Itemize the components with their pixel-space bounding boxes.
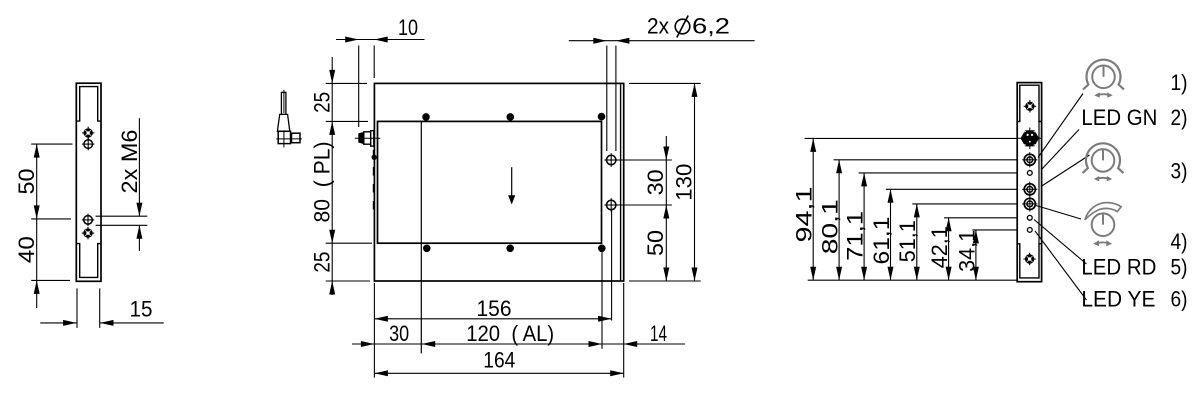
left view screw bottom crosshair <box>82 214 94 226</box>
svg-text:94,1: 94,1 <box>792 187 817 243</box>
svg-text:6): 6) <box>1171 286 1188 311</box>
svg-text:4): 4) <box>1171 229 1188 254</box>
dimension 42,1 <box>927 218 1017 280</box>
right view screw top <box>1024 100 1036 112</box>
index 5) <box>1171 255 1188 280</box>
dimension 25 top left chain <box>309 57 368 121</box>
right view LED yellow <box>1027 228 1032 233</box>
svg-text:80 ( PL): 80 ( PL) <box>309 142 334 223</box>
knob icon 3 <box>1083 143 1124 181</box>
right view pot 3 <box>1022 196 1037 211</box>
dimension 61,1 <box>869 189 1017 280</box>
svg-text:51,1: 51,1 <box>895 220 920 262</box>
svg-text:34,1: 34,1 <box>954 230 979 272</box>
dimension 130 <box>629 83 701 281</box>
leader to LED RD <box>1034 220 1087 265</box>
front view mounting hole upper <box>604 153 618 167</box>
right view LED red <box>1027 215 1032 220</box>
label 2x M6 left view <box>96 118 148 251</box>
right view screw bottom <box>1023 253 1035 265</box>
svg-text:LED YE: LED YE <box>1081 286 1155 311</box>
svg-text:61,1: 61,1 <box>869 217 894 265</box>
front view hidden edge below connector <box>372 150 374 212</box>
left view top channel <box>76 87 101 122</box>
leader to knob 4 <box>1036 206 1081 220</box>
svg-text:25: 25 <box>309 92 334 113</box>
leader to knob 3 <box>1041 155 1090 187</box>
dimension 80 (PL) chain <box>309 121 372 243</box>
dimension 25 bottom left chain <box>309 243 370 295</box>
right view top channel <box>1017 85 1041 121</box>
leader to LED YE <box>1035 231 1087 300</box>
left view screw top filled <box>82 127 94 139</box>
label LED YE <box>1081 286 1155 311</box>
dimension 71,1 <box>843 173 1018 280</box>
dimension 80,1 <box>818 160 1018 280</box>
left view screw top crosshair <box>82 138 94 150</box>
svg-text:2x: 2x <box>647 14 669 39</box>
svg-text:25: 25 <box>309 252 334 273</box>
leader to knob 1 <box>1038 94 1083 158</box>
index 4) <box>1171 229 1188 254</box>
svg-text:2): 2) <box>1171 105 1188 130</box>
svg-text:42,1: 42,1 <box>927 226 952 268</box>
dimension 164 <box>374 348 623 377</box>
active length boundary line <box>420 121 422 353</box>
svg-text:14: 14 <box>650 321 667 346</box>
front view bottom mounting dots <box>423 245 606 253</box>
svg-text:80,1: 80,1 <box>818 199 843 254</box>
svg-text:40: 40 <box>14 236 39 263</box>
index 6) <box>1171 286 1188 311</box>
left view housing outline <box>76 83 101 281</box>
right view bottom channel <box>1017 244 1041 278</box>
dimension 120 (AL) <box>422 251 602 349</box>
index 3) <box>1171 158 1188 183</box>
leader to LED GN <box>1042 130 1079 170</box>
right view LED green <box>1027 171 1032 176</box>
left view screw bottom filled <box>82 227 94 239</box>
svg-text:50: 50 <box>643 230 668 256</box>
dimension 10 <box>336 15 425 127</box>
svg-text:LED RD: LED RD <box>1081 255 1156 280</box>
svg-text:120 ( AL): 120 ( AL) <box>466 321 554 346</box>
dimension 15 left view <box>40 288 163 328</box>
label LED RD <box>1081 255 1156 280</box>
right view connector M8 <box>1018 128 1041 150</box>
index 1) <box>1171 70 1188 95</box>
right view pot 1 <box>1022 152 1037 167</box>
svg-text:164: 164 <box>483 348 515 373</box>
svg-text:6,2: 6,2 <box>692 14 730 39</box>
front view inner profile <box>378 121 602 243</box>
front view left edge dot <box>372 155 377 160</box>
svg-text:130: 130 <box>671 164 696 201</box>
cable plug pictogram <box>276 90 302 147</box>
svg-text:1): 1) <box>1171 70 1188 95</box>
label LED GN <box>1081 105 1157 130</box>
left view bottom channel <box>76 244 101 278</box>
front view outer housing <box>374 83 623 281</box>
dimension 40 left view <box>14 219 70 308</box>
knob icon 4 coarse <box>1085 203 1121 247</box>
front view mounting hole lower <box>604 198 618 212</box>
dimension 30 bottom <box>352 321 685 347</box>
front view side connector <box>355 131 380 146</box>
svg-text:156: 156 <box>477 296 512 321</box>
svg-text:50: 50 <box>14 169 39 195</box>
front view direction arrow <box>508 167 515 204</box>
svg-text:30: 30 <box>643 169 668 195</box>
dimension 50 right <box>643 205 669 281</box>
front view top mounting dots <box>422 113 605 121</box>
svg-text:3): 3) <box>1171 158 1188 183</box>
svg-text:10: 10 <box>398 15 418 40</box>
svg-text:5): 5) <box>1171 255 1188 280</box>
svg-text:LED GN: LED GN <box>1081 105 1157 130</box>
right view pot 2 <box>1022 182 1037 197</box>
dimension 30 right <box>617 136 672 205</box>
dimension 94,1 <box>792 138 1018 280</box>
svg-text:2x M6: 2x M6 <box>117 130 142 194</box>
dimension 50 left view <box>14 144 73 219</box>
dimension 34,1 <box>954 230 1017 280</box>
right view housing outline <box>1017 83 1041 282</box>
svg-text:30: 30 <box>389 321 409 346</box>
right view cover seam <box>1038 122 1040 244</box>
bottom reference line right view <box>808 279 1018 281</box>
knob icon 1 <box>1083 60 1124 98</box>
label 2x dia 6,2 <box>569 14 755 152</box>
dimension 156 <box>374 211 611 378</box>
svg-text:15: 15 <box>130 297 153 322</box>
dimension 51,1 <box>895 204 1017 280</box>
svg-text:71,1: 71,1 <box>843 211 868 261</box>
dimension 14 <box>624 283 667 378</box>
index 2) <box>1171 105 1188 130</box>
front view right flange inner edge <box>620 84 622 280</box>
